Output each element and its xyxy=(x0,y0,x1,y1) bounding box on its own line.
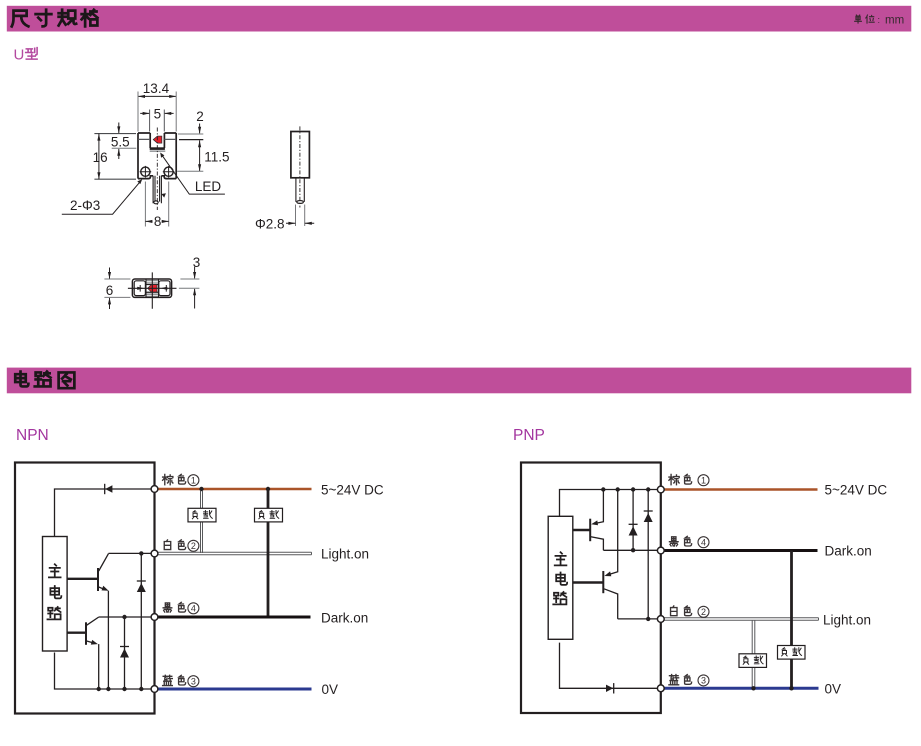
wire: Q2 collector to black terminal xyxy=(99,616,155,618)
wire: Q2 emitter down xyxy=(98,644,100,689)
terminal ③ blue (PNP) xyxy=(657,685,664,692)
wire: brown 5~24V DC (PNP) xyxy=(664,488,817,491)
svg-text:2: 2 xyxy=(701,607,706,617)
terminal ② white (PNP) xyxy=(657,616,664,623)
dimension 5 (slot width) xyxy=(140,106,173,131)
svg-text:0V: 0V xyxy=(322,682,339,697)
small arrows in bottom view xyxy=(137,287,167,290)
load box 负载 1 (NPN) xyxy=(188,508,216,522)
tiny arrow mark on pin xyxy=(161,193,166,197)
transistor Q2 NPN (lower) xyxy=(68,617,99,645)
wire: Vcc internal top (PNP) xyxy=(560,490,661,517)
wire: brown 5~24V DC (NPN) xyxy=(158,488,312,491)
svg-text:1: 1 xyxy=(191,476,196,486)
diode D3 reverse-protection on brown wire (NPN) xyxy=(105,484,113,494)
label 白色② (NPN) xyxy=(164,540,199,551)
svg-text:LED: LED xyxy=(195,179,222,194)
bottom view right inner square xyxy=(159,281,170,296)
transistor Q4 PNP (lower) xyxy=(573,490,618,619)
svg-text:13.4: 13.4 xyxy=(143,81,170,96)
red arrow (bottom view) xyxy=(148,285,157,292)
label 棕色 ① (PNP) xyxy=(669,474,709,485)
label 2-Φ3 with leader to mounting hole xyxy=(62,179,142,214)
section label: U型 xyxy=(14,47,38,64)
terminal ① brown (NPN) xyxy=(151,486,158,493)
wire: blue 0V (NPN) xyxy=(158,688,312,691)
transistor Q3 PNP (upper) xyxy=(573,490,604,551)
wire: Vcc internal top (NPN) xyxy=(55,489,155,537)
svg-text:Dark.on: Dark.on xyxy=(321,610,368,625)
load 4 wire (black, PNP) xyxy=(790,551,793,689)
svg-text:U: U xyxy=(14,47,25,64)
svg-text:2: 2 xyxy=(196,109,204,124)
load 1 wire (white style) xyxy=(201,491,203,554)
svg-text:NPN: NPN xyxy=(16,427,49,444)
step line across prongs (2mm level) xyxy=(138,138,176,140)
wire: Q1 collector to white terminal xyxy=(109,552,155,554)
dimension 3 (center offset) xyxy=(179,255,200,309)
load box 负载 2 (NPN) xyxy=(255,508,283,522)
wire: 0V internal bottom (PNP) xyxy=(560,643,661,689)
label 棕色① (NPN) xyxy=(163,474,199,485)
sensor body outline (front view) xyxy=(138,133,176,179)
unit label: 单位：mm xyxy=(855,15,904,27)
terminal ④ black (PNP) xyxy=(657,547,664,554)
svg-text:4: 4 xyxy=(191,604,196,614)
svg-text:Light.on: Light.on xyxy=(823,612,871,627)
label 蓝色 ③ (PNP) xyxy=(669,675,709,686)
front pin (connector) xyxy=(153,176,161,204)
header bar: 尺寸规格 (dimensions) xyxy=(7,6,912,32)
label 蓝色③ (NPN) xyxy=(163,675,199,686)
svg-text::: : xyxy=(878,15,881,25)
bottom view crosshair lines xyxy=(128,272,177,308)
hatched slot bands xyxy=(146,281,158,297)
terminal ③ blue (NPN) xyxy=(151,686,158,693)
bottom view outer body xyxy=(132,279,171,297)
node dots on top wire (PNP) xyxy=(601,487,650,491)
zener diode A (black to Vcc, PNP) xyxy=(629,490,638,551)
svg-text:8: 8 xyxy=(154,214,162,229)
mounting hole right xyxy=(163,166,175,178)
dimension 13.4 (top width) xyxy=(138,81,176,131)
svg-text:6: 6 xyxy=(106,283,114,298)
side view center line xyxy=(299,126,301,207)
header bar: 电路图 (circuit diagram) xyxy=(7,368,912,394)
svg-text:Φ2.8: Φ2.8 xyxy=(255,216,285,231)
center line (front view, dash-dot) xyxy=(156,128,158,211)
svg-text:0V: 0V xyxy=(825,681,842,696)
NPN sensor body box xyxy=(15,463,155,714)
PNP sensor body box xyxy=(521,463,661,714)
wire: white Light.on (NPN) xyxy=(158,552,312,554)
svg-text:Dark.on: Dark.on xyxy=(825,544,872,559)
svg-text:PNP: PNP xyxy=(513,427,545,444)
node dots on brown wire xyxy=(199,487,203,491)
node: junction dot D2 top xyxy=(122,615,126,619)
svg-text:11.5: 11.5 xyxy=(204,150,229,165)
svg-text:2: 2 xyxy=(191,541,196,551)
wire: 0V internal bottom (NPN) xyxy=(55,653,155,690)
load box 负载 3 (PNP) xyxy=(739,654,767,668)
slot bottom shadow line xyxy=(150,150,166,152)
transistor Q1 NPN (upper) xyxy=(68,554,109,591)
node dots on 0V wire xyxy=(97,687,144,691)
zener diode B (white to Vcc, PNP) xyxy=(644,490,653,622)
terminal ② white (NPN) xyxy=(151,550,158,557)
svg-text:mm: mm xyxy=(885,15,904,27)
wire: black Dark.on (PNP) xyxy=(664,549,817,552)
svg-text:1: 1 xyxy=(701,476,706,486)
main circuit block 主电路 (PNP) xyxy=(548,516,573,639)
load box 负载 4 (PNP) xyxy=(778,646,806,660)
dimension Φ2.8 (pin diameter) xyxy=(255,205,314,232)
main circuit block 主电路 (NPN) xyxy=(43,537,68,652)
wire: Q3 collector to black terminal (PNP) xyxy=(603,549,660,551)
slot bottom thick bar xyxy=(150,147,165,150)
svg-text:4: 4 xyxy=(701,538,706,548)
side view body xyxy=(291,132,310,178)
LED red arrow in slot xyxy=(153,136,162,143)
svg-text:3: 3 xyxy=(193,255,201,270)
svg-text:16: 16 xyxy=(93,150,108,165)
svg-text:3: 3 xyxy=(191,677,196,687)
dimension 8 (pin spacing bottom) xyxy=(145,182,168,230)
wire: Q1 emitter down xyxy=(107,591,109,689)
svg-text:5~24V DC: 5~24V DC xyxy=(825,482,888,497)
load 3 wire (white style, PNP) xyxy=(752,621,755,688)
svg-text:5~24V DC: 5~24V DC xyxy=(321,482,384,497)
node dots on blue wire (PNP) xyxy=(751,686,755,690)
label 白色 ② (PNP) xyxy=(671,606,709,617)
dimension 5.5 (left slot depth) xyxy=(111,123,136,160)
wire: white Light.on (PNP) xyxy=(664,618,818,620)
label 黑色④ (NPN) xyxy=(163,602,199,613)
dimension 6 (bottom view height) xyxy=(104,268,130,310)
dimension 16 (left height) xyxy=(93,134,136,180)
diode D4 on 0V wire (PNP) xyxy=(606,683,614,693)
dimension 11.5 (slot depth side) xyxy=(177,140,229,171)
svg-text:5: 5 xyxy=(154,106,162,121)
svg-text:3: 3 xyxy=(701,676,706,686)
svg-text:2-Φ3: 2-Φ3 xyxy=(70,198,100,213)
wire: blue 0V (PNP) xyxy=(664,687,818,690)
bottom view left inner square xyxy=(134,281,145,296)
wire: black Dark.on (NPN) xyxy=(158,616,311,619)
dimension 2 (top step) xyxy=(178,109,204,139)
label 黑色 ④ (PNP) xyxy=(669,536,709,547)
load 2 wire (black) xyxy=(267,489,270,617)
node: junction dot diode A bottom xyxy=(631,548,635,552)
side view pin xyxy=(296,178,304,204)
node: junction dot D1 top xyxy=(139,551,143,555)
mounting hole left xyxy=(140,166,152,178)
zener diode D1 (white to blue) xyxy=(137,553,146,689)
label LED with leader to slot bottom xyxy=(160,153,225,195)
svg-text:5.5: 5.5 xyxy=(111,134,130,149)
terminal ④ black (NPN) xyxy=(151,614,158,621)
svg-text:Light.on: Light.on xyxy=(321,547,369,562)
wire: white internal (PNP) xyxy=(618,618,661,620)
zener diode D2 (black to blue) xyxy=(120,617,129,689)
terminal ① brown (PNP) xyxy=(657,486,664,493)
